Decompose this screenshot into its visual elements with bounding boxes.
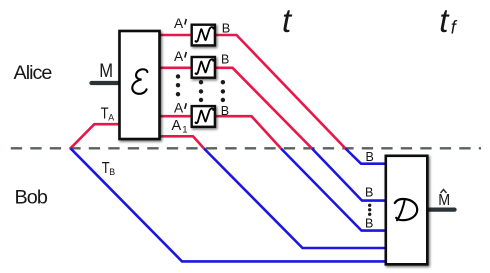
wire Bn (blue, divider to decoder input 3) (281, 149, 386, 231)
wire A'n (red, encoder to channel Nn and diagonal to divider) (158, 116, 281, 148)
svg-text:B: B (366, 150, 374, 164)
svg-text:B: B (109, 167, 115, 177)
encoder box E (120, 31, 160, 139)
channel box Nn (192, 106, 215, 127)
svg-text:Alice: Alice (14, 62, 53, 84)
ellipsis dots decoder inputs (368, 204, 371, 216)
svg-text:1: 1 (182, 124, 187, 135)
svg-text:t: t (439, 2, 450, 39)
svg-text:A: A (174, 49, 184, 64)
wire A1-to-decoder (blue, divider to decoder input 4) (204, 149, 386, 249)
wire B2 (blue, divider to decoder input 2) (312, 149, 386, 201)
svg-text:M: M (438, 192, 450, 209)
svg-text:Bob: Bob (15, 186, 48, 208)
wire B1 (blue, divider to decoder input 1) (346, 149, 387, 164)
svg-text:A: A (174, 100, 184, 115)
wire M (message input into encoder) (92, 81, 123, 85)
ellipsis dots column between channel boxes (199, 80, 203, 102)
ellipsis dots column B side (221, 80, 225, 102)
wire A1 (red, encoder bottom output to divider) (158, 136, 204, 148)
dashed divider Alice/Bob (11, 147, 481, 149)
svg-text:B: B (365, 186, 373, 200)
svg-text:A: A (108, 112, 114, 122)
wire A'1 (red, encoder to channel N1 and diagonal to divider) (158, 35, 346, 149)
channel box N1 (192, 25, 215, 46)
svg-text:B: B (221, 53, 229, 67)
svg-text:A: A (174, 16, 184, 31)
wire A'2 (red, encoder to channel N2 and diagonal to divider) (158, 68, 312, 149)
svg-text:B: B (222, 21, 231, 36)
svg-text:M: M (99, 60, 113, 82)
decoder box D (386, 156, 428, 264)
svg-text:A: A (172, 118, 182, 134)
svg-text:f: f (451, 18, 458, 38)
wire TB (blue, Bob side entanglement into decoder) (71, 148, 387, 261)
svg-text:t: t (282, 2, 293, 39)
svg-text:B: B (365, 217, 373, 231)
svg-text:B: B (221, 104, 229, 118)
ellipsis dots column A' side (176, 74, 180, 96)
channel box N2 (192, 57, 215, 78)
wire M-hat (decoded message output of decoder) (427, 207, 455, 211)
wire TA (red, Alice side entanglement into encoder) (71, 124, 121, 148)
